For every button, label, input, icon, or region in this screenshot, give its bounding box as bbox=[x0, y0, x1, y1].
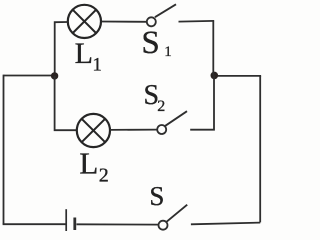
wire: right rail vertical bbox=[259, 76, 261, 223]
svg-text:1: 1 bbox=[92, 55, 102, 76]
wire: node A down to L2 branch corner and right to lamp L2 bbox=[55, 76, 78, 130]
svg-text:S: S bbox=[141, 25, 159, 61]
lamp L2: bulb circle bbox=[77, 114, 110, 147]
battery B: long positive plate bbox=[65, 209, 67, 231]
wire: battery to switch S bbox=[77, 223, 159, 225]
lamp L1: cross stroke 1 bbox=[73, 10, 96, 33]
lamp L2: cross stroke 1 bbox=[82, 119, 105, 142]
svg-text:2: 2 bbox=[157, 98, 165, 115]
wire: bottom left horizontal (left rail to battery) bbox=[3, 223, 66, 225]
wire: node B up to S1 branch corner bbox=[212, 22, 214, 76]
wire: lamp L1 to switch S1 bbox=[101, 21, 147, 23]
switch S2: blade bbox=[165, 111, 187, 126]
svg-text:S: S bbox=[149, 181, 164, 211]
node A junction dot (left) bbox=[51, 72, 58, 79]
svg-text:1: 1 bbox=[164, 44, 172, 60]
battery B: short negative plate bbox=[73, 218, 76, 231]
svg-text:L: L bbox=[75, 37, 93, 70]
switch S1: blade bbox=[155, 4, 176, 17]
wire: node B down to S2 branch corner and left to switch S2 bbox=[190, 75, 214, 129]
wire: top left corner to lamp L1 bbox=[55, 21, 68, 75]
node B junction dot (right) bbox=[211, 72, 219, 80]
switch S2: pivot circle bbox=[157, 125, 166, 134]
switch S1: pivot circle bbox=[147, 17, 156, 26]
lamp L1: bulb circle bbox=[68, 5, 101, 38]
wire: left rail top horizontal (node A to left rail) bbox=[4, 75, 55, 77]
lamp L1: cross stroke 2 bbox=[73, 10, 96, 33]
wire: left rail vertical bbox=[3, 75, 5, 225]
wire: S1 to top right corner bbox=[179, 20, 215, 23]
wire: lamp L2 to switch S2 bbox=[110, 129, 157, 131]
svg-text:L: L bbox=[79, 146, 98, 181]
wire: switch S to bottom right corner bbox=[191, 223, 260, 225]
wire: node B to right rail horizontal bbox=[214, 75, 261, 77]
switch S: pivot circle bbox=[159, 221, 168, 230]
svg-text:2: 2 bbox=[99, 164, 109, 186]
lamp L2: cross stroke 2 bbox=[82, 119, 105, 142]
switch S: blade bbox=[167, 205, 188, 222]
